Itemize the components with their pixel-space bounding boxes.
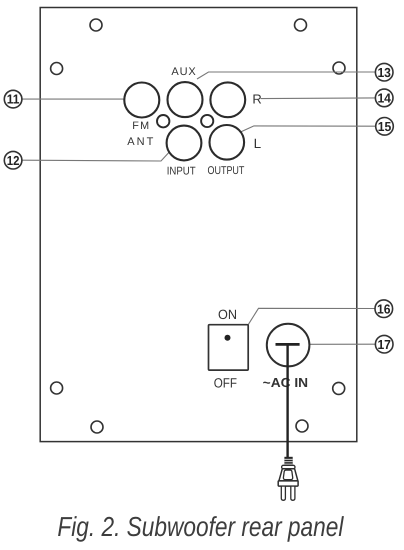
- svg-text:FM: FM: [132, 120, 149, 132]
- svg-text:12: 12: [7, 153, 20, 168]
- svg-text:14: 14: [377, 91, 391, 106]
- svg-text:ANT: ANT: [127, 136, 153, 148]
- svg-text:15: 15: [378, 119, 392, 134]
- svg-text:16: 16: [377, 301, 391, 316]
- svg-text:INPUT: INPUT: [167, 165, 196, 177]
- svg-text:OFF: OFF: [214, 375, 237, 390]
- svg-text:13: 13: [377, 65, 391, 80]
- svg-text:R: R: [252, 91, 261, 106]
- svg-text:11: 11: [7, 92, 20, 107]
- svg-text:AUX: AUX: [171, 66, 196, 78]
- svg-text:OUTPUT: OUTPUT: [208, 165, 245, 177]
- svg-text:17: 17: [377, 337, 391, 352]
- svg-text:Fig. 2. Subwoofer rear panel: Fig. 2. Subwoofer rear panel: [57, 511, 344, 542]
- svg-text:L: L: [254, 136, 262, 151]
- svg-text:~AC IN: ~AC IN: [263, 375, 308, 390]
- svg-text:ON: ON: [218, 307, 237, 322]
